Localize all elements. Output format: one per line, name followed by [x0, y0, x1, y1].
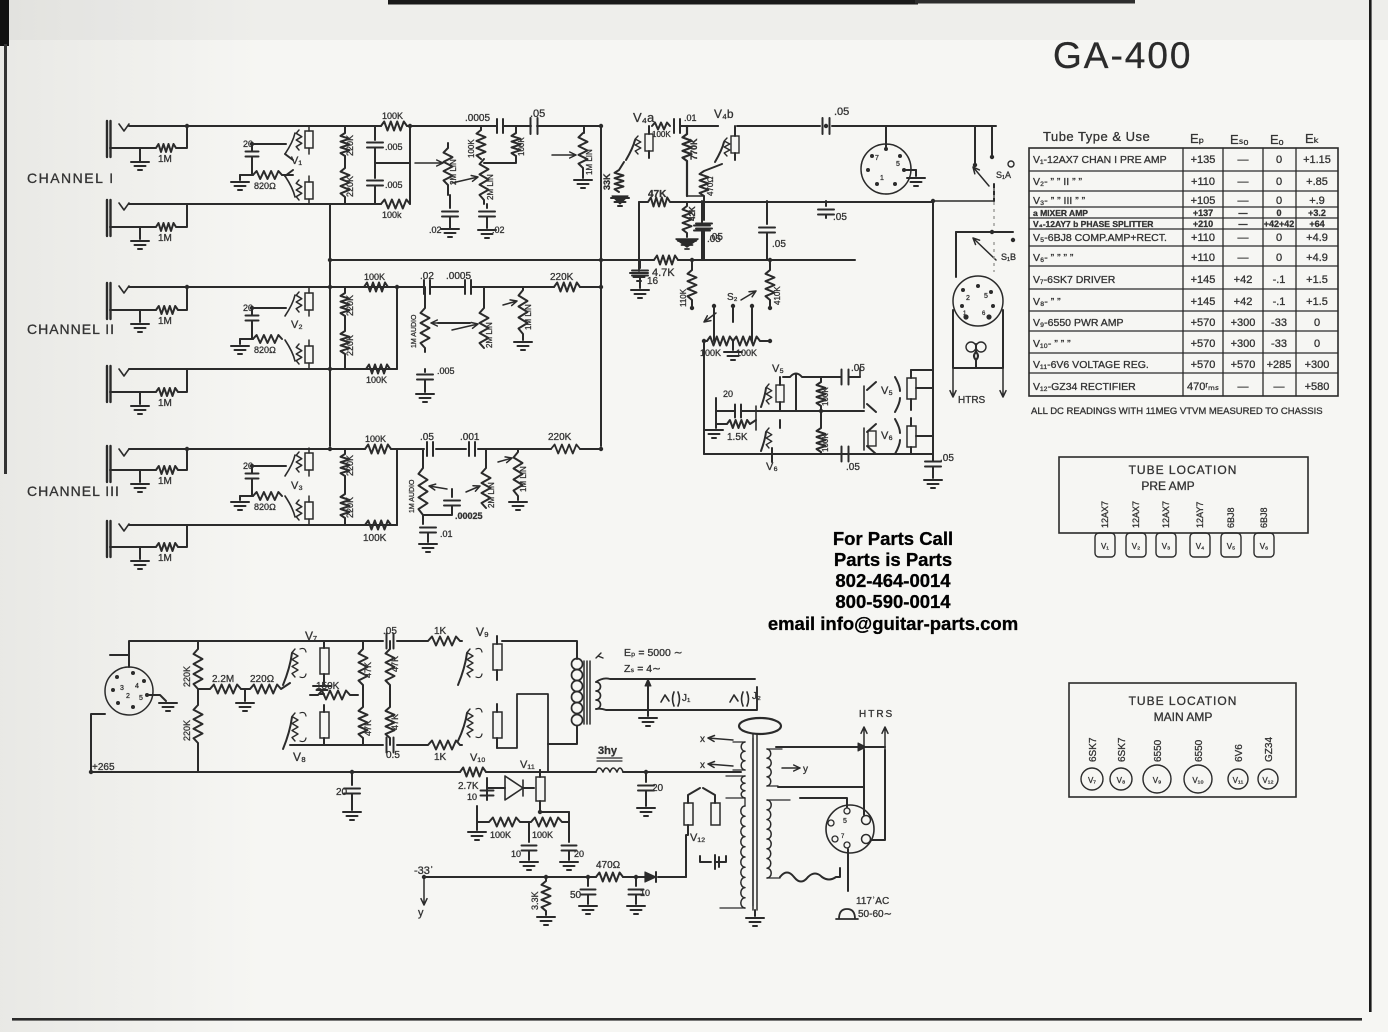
svg-text:V₁₂-GZ34 RECTIFIER: V₁₂-GZ34 RECTIFIER: [1033, 381, 1136, 393]
label 820 V1: [254, 181, 276, 191]
svg-text:y: y: [803, 764, 808, 775]
label V6 out: [881, 430, 893, 442]
svg-text:820Ω: 820Ω: [254, 345, 276, 355]
triode V1b: [285, 176, 313, 204]
capacitor 20 V1 cathode: [246, 144, 287, 175]
svg-text:6SK7: 6SK7: [1088, 737, 1099, 762]
svg-text:47K: 47K: [648, 189, 667, 200]
wire -33 bus: [424, 876, 686, 878]
pot 2M LIN ch1 a: [415, 143, 453, 195]
wire ch1 low bus: [129, 203, 381, 205]
svg-text:V₈: V₈: [293, 750, 306, 764]
svg-text:0.5: 0.5: [386, 750, 400, 761]
svg-text:2M LIN: 2M LIN: [485, 322, 494, 348]
label .05 ch1: [530, 108, 545, 120]
label V11: [520, 759, 535, 771]
label 100K v6g: [821, 433, 830, 452]
jack J1 speaker: [661, 692, 680, 706]
wire htrs arrows: [950, 368, 1006, 397]
label .005 ch1 upper: [385, 142, 403, 152]
svg-text:.02: .02: [492, 225, 505, 235]
ground comp: [705, 424, 723, 438]
svg-text:220K: 220K: [345, 176, 355, 197]
label 1M j6: [158, 553, 172, 564]
svg-text:50: 50: [570, 890, 582, 901]
svg-text:+.9: +.9: [1309, 195, 1325, 207]
svg-text:1M: 1M: [158, 553, 172, 564]
svg-text:20: 20: [723, 389, 733, 399]
svg-text:PRE AMP: PRE AMP: [1141, 479, 1194, 493]
svg-text:+110: +110: [1191, 232, 1215, 244]
svg-text:.05: .05: [833, 212, 847, 223]
label CHANNEL III: [27, 483, 120, 499]
svg-text:.05: .05: [772, 239, 786, 250]
svg-text:800-590-0014: 800-590-0014: [835, 591, 951, 612]
label .05 y201a: [707, 234, 721, 245]
svg-text:Parts is Parts: Parts is Parts: [834, 549, 952, 570]
arrow y feed: [418, 877, 427, 919]
svg-text:0: 0: [1276, 232, 1282, 244]
label V4b: [714, 107, 734, 121]
svg-text:—: —: [1238, 232, 1249, 244]
label 47K a: [363, 662, 373, 678]
svg-text:-33: -33: [1271, 338, 1287, 350]
label 20 bias: [574, 849, 584, 859]
tube V9 pentode: [458, 648, 482, 685]
svg-text:V₅: V₅: [772, 363, 784, 375]
label .05 ch3: [420, 432, 434, 443]
svg-text:2.7K: 2.7K: [458, 781, 479, 792]
capacitor .05 drv top: [387, 634, 394, 649]
wire S2 drops: [714, 306, 752, 341]
resistor R 770K: [683, 126, 692, 196]
label 47K c: [363, 720, 373, 736]
ground 1M pot: [574, 180, 592, 188]
triode V1a: [285, 126, 313, 154]
svg-text:GA-400: GA-400: [1053, 35, 1193, 76]
tube V8 pentode: [283, 712, 306, 749]
tube V4a triode: [626, 126, 653, 160]
transformer T1 output: [497, 641, 603, 771]
sockets mainamp V7-V12: [1081, 765, 1278, 793]
label 20 V1: [243, 139, 253, 149]
ground socket 7pin: [907, 170, 925, 186]
svg-text:V₇-6SK7 DRIVER: V₇-6SK7 DRIVER: [1033, 274, 1116, 286]
label 10 bias: [511, 849, 521, 859]
svg-text:100K: 100K: [366, 375, 387, 385]
svg-text:42K: 42K: [688, 206, 697, 221]
svg-text:-33: -33: [1271, 317, 1287, 329]
wire ch1 top bus: [129, 125, 381, 127]
svg-text:+42+42: +42+42: [1264, 219, 1295, 229]
svg-text:+42: +42: [1234, 274, 1253, 286]
svg-text:6V6: 6V6: [1234, 744, 1245, 762]
resistor R 410K: [766, 260, 775, 306]
ground 1M LIN ch2: [514, 342, 532, 350]
capacitor .05 y201 a: [694, 201, 710, 260]
resistor R 100K ch2 top: [364, 283, 388, 292]
svg-text:V₈- ” ”: V₈- ” ”: [1033, 296, 1061, 308]
resistor R 1K top: [424, 637, 462, 646]
svg-text:V₄a: V₄a: [633, 110, 655, 125]
label 2M LIN ch1 b: [486, 174, 495, 200]
svg-text:email info@guitar-parts.com: email info@guitar-parts.com: [768, 613, 1018, 634]
svg-text:1: 1: [880, 175, 884, 182]
wire socket top bus: [110, 641, 290, 655]
svg-text:820Ω: 820Ω: [254, 181, 276, 191]
svg-text:470Ω: 470Ω: [706, 177, 715, 197]
svg-text:.05: .05: [834, 106, 849, 118]
resistor R 470 V4b cathode: [700, 164, 723, 202]
tube socket 8pin: [105, 655, 166, 715]
svg-text:V₄-12AY7 b PHASE SPLITTER: V₄-12AY7 b PHASE SPLITTER: [1033, 219, 1153, 229]
tube V4b triode: [715, 126, 739, 162]
label V5 comp: [772, 363, 784, 375]
resistor R 1K bot: [424, 741, 462, 750]
capacitor .02 ch2: [424, 280, 430, 294]
wire octal right: [776, 743, 885, 807]
svg-text:1M LIN: 1M LIN: [585, 149, 594, 175]
label 10 bias2: [640, 888, 650, 898]
svg-text:—: —: [1238, 381, 1249, 393]
svg-text:S₂: S₂: [727, 292, 738, 303]
svg-text:-.1: -.1: [1273, 274, 1286, 286]
svg-text:V₂- ” ” II ” ”: V₂- ” ” II ” ”: [1033, 176, 1082, 188]
box tube location preamp: [1059, 457, 1308, 533]
labels mainamp tube types: [1088, 737, 1275, 762]
ground j3: [131, 310, 149, 332]
svg-text:0: 0: [1276, 154, 1282, 166]
svg-text:20: 20: [652, 783, 664, 794]
svg-text:1M: 1M: [158, 476, 172, 487]
svg-text:220K: 220K: [548, 432, 572, 443]
wire HV to socket: [780, 868, 840, 882]
resistor R 100K ch3 bottom: [365, 521, 397, 530]
label V10: [470, 752, 486, 764]
tube V5 output: [860, 368, 900, 412]
svg-text:V₁₁-6V6 VOLTAGE REG.: V₁₁-6V6 VOLTAGE REG.: [1033, 359, 1149, 371]
pot 1M ch1 level: [552, 126, 588, 178]
svg-text:V₅: V₅: [881, 385, 893, 397]
label .02 ch1 b: [492, 225, 505, 235]
svg-text:1K: 1K: [434, 626, 447, 637]
label V3: [291, 480, 303, 492]
wire v11 plate up: [540, 770, 569, 812]
svg-text:CHANNEL II: CHANNEL II: [27, 321, 115, 337]
switch S1B: [956, 230, 1015, 277]
label .05 v5c: [851, 363, 865, 374]
svg-text:100K: 100K: [490, 830, 511, 840]
wire bus y260: [329, 259, 855, 261]
svg-text:+1.5: +1.5: [1306, 296, 1328, 308]
label 100K ch3 bottom: [363, 533, 387, 544]
resistor R 100K s2b: [733, 337, 770, 346]
ground V7 cathode: [313, 680, 331, 694]
svg-text:.01: .01: [684, 113, 697, 123]
resistor R 220 grid: [241, 683, 290, 694]
svg-text:For Parts Call: For Parts Call: [833, 528, 953, 549]
label -33V: [414, 865, 434, 877]
label 20 V2: [243, 303, 253, 313]
svg-text:1M LIN: 1M LIN: [519, 466, 528, 492]
ground 33K: [611, 196, 629, 206]
svg-text:a MIXER AMP: a MIXER AMP: [1033, 208, 1088, 218]
label 1M AUDIO ch3: [409, 479, 416, 513]
label 470 bias: [596, 860, 620, 871]
svg-text:10: 10: [511, 849, 521, 859]
svg-text:—: —: [1238, 195, 1249, 207]
pot 2M LIN ch1 b: [452, 159, 489, 204]
label 470 V4b: [706, 177, 715, 197]
capacitor .001 ch3: [469, 442, 475, 456]
svg-text:220K: 220K: [345, 455, 355, 476]
svg-text:16: 16: [647, 276, 659, 287]
capacitor .05 V4 out: [696, 202, 712, 260]
svg-text:V₁₀- ” ” ”: V₁₀- ” ” ”: [1033, 338, 1071, 350]
wire V12 heater: [715, 856, 726, 862]
capacitor htr bypass: [700, 855, 719, 869]
ground j5: [131, 470, 149, 492]
resistor R 110K: [688, 260, 697, 306]
svg-text:.01: .01: [440, 529, 453, 539]
label HTRS bottom: [859, 709, 894, 720]
label 1M j4: [158, 398, 172, 409]
svg-text:Zₛ = 4∼: Zₛ = 4∼: [624, 663, 661, 675]
pot 2M LIN ch3: [466, 449, 491, 508]
table rows tube data: [1033, 154, 1331, 393]
svg-text:770K: 770K: [689, 138, 699, 160]
ground j1: [131, 148, 149, 170]
label .02 ch2: [420, 271, 434, 282]
label preamp title: [1129, 463, 1238, 493]
title GA-400: [1053, 35, 1193, 76]
svg-text:V₅-6BJ8 COMP.AMP+RECT.: V₅-6BJ8 COMP.AMP+RECT.: [1033, 232, 1167, 244]
svg-text:0: 0: [1314, 317, 1320, 329]
svg-text:1M: 1M: [158, 154, 172, 165]
svg-text:2: 2: [126, 693, 130, 700]
svg-text:2M LIN: 2M LIN: [486, 174, 495, 200]
resistor R 220K ch1 upper: [341, 126, 350, 156]
svg-text:6550: 6550: [1194, 739, 1205, 762]
svg-text:CHANNEL III: CHANNEL III: [27, 483, 120, 499]
svg-text:1K: 1K: [434, 752, 447, 763]
resistor R 820 V3: [240, 492, 282, 500]
plate resistor V10: [493, 704, 502, 748]
resistor R 100K V4a: [652, 123, 670, 130]
cathode resistor V11: [536, 770, 545, 812]
tube V6 output: [864, 419, 900, 454]
label S1B: [1001, 252, 1016, 262]
label .01 V4: [684, 113, 697, 123]
resistor R 100K ch1 r: [484, 126, 521, 163]
svg-text:12AX7: 12AX7: [1100, 501, 1110, 528]
label .001 ch3: [460, 432, 480, 443]
wire speaker bottom: [596, 687, 757, 710]
wire top bus right: [680, 125, 996, 127]
label V5 out: [881, 385, 893, 397]
label 33K: [602, 173, 612, 190]
label 1M LIN ch3: [519, 466, 528, 492]
svg-text:+137: +137: [1193, 208, 1213, 218]
capacitor .005 ch2: [416, 369, 434, 402]
label 0.5 drv bot: [386, 750, 400, 761]
label 1K top: [434, 626, 447, 637]
label 1.5K comp: [727, 432, 748, 443]
resistor R 1M ch3-j5: [110, 449, 187, 474]
label 42K: [688, 206, 697, 221]
jack input 1: [107, 121, 129, 157]
label 1M j5: [158, 476, 172, 487]
svg-text:6: 6: [982, 311, 986, 317]
table footnote: [1031, 406, 1323, 417]
svg-text:TUBE LOCATION: TUBE LOCATION: [1129, 694, 1238, 708]
resistor R 1M ch2-j4: [110, 369, 187, 396]
svg-text:110K: 110K: [679, 288, 688, 307]
svg-text:V₄b: V₄b: [714, 107, 734, 121]
svg-text:V₁₀: V₁₀: [470, 752, 486, 764]
svg-text:100K: 100K: [365, 434, 386, 444]
arrow x tap 1: [700, 734, 733, 745]
svg-text:6550: 6550: [1153, 739, 1164, 762]
tube V11 reg: [497, 776, 534, 800]
wire S1B feed: [933, 200, 994, 202]
label 1M j3: [158, 316, 172, 327]
svg-text:V₉: V₉: [1153, 776, 1162, 785]
svg-text:+285: +285: [1267, 359, 1292, 371]
capacitor .02 ch1 a: [441, 195, 459, 237]
resistor R 220K pi lower: [194, 689, 203, 772]
svg-text:V₅: V₅: [1227, 542, 1236, 551]
label .00025 ch3: [455, 511, 483, 521]
svg-text:+110: +110: [1191, 176, 1215, 188]
svg-text:Eₚ: Eₚ: [1190, 131, 1204, 146]
svg-text:100K: 100K: [532, 830, 553, 840]
label V12: [690, 832, 705, 844]
svg-text:820Ω: 820Ω: [254, 502, 276, 512]
svg-text:MAIN AMP: MAIN AMP: [1154, 710, 1213, 724]
ground socket 8pin: [159, 703, 177, 711]
label +265: [92, 762, 115, 773]
label 1M LIN ch2: [524, 304, 533, 330]
svg-text:+4.9: +4.9: [1306, 252, 1328, 264]
svg-text:+300: +300: [1305, 359, 1330, 371]
svg-text:+300: +300: [1231, 338, 1256, 350]
svg-text:V₁₂: V₁₂: [690, 832, 705, 844]
resistor R 100K ch3 top: [365, 445, 391, 454]
svg-text:.05: .05: [420, 432, 434, 443]
svg-text:1.5K: 1.5K: [727, 432, 748, 443]
svg-text:Tube Type & Use: Tube Type & Use: [1043, 129, 1150, 144]
svg-text:100K: 100K: [652, 130, 671, 139]
label CHANNEL II: [27, 321, 115, 337]
svg-text:Eₛₒ: Eₛₒ: [1230, 132, 1249, 147]
resistor R 42K: [683, 202, 692, 237]
svg-text:V₁₂: V₁₂: [1262, 776, 1273, 785]
svg-text:100K: 100K: [517, 137, 526, 156]
svg-text:2.2M: 2.2M: [212, 674, 234, 685]
arrow x tap 2: [700, 760, 733, 771]
label V4a: [633, 110, 655, 125]
label J1: [682, 693, 691, 704]
svg-text:.001: .001: [460, 432, 480, 443]
svg-text:.05: .05: [707, 234, 721, 245]
label 3hy: [598, 745, 618, 757]
capacitor 20 filt: [637, 772, 655, 816]
label 100K ch1 bottom: [382, 210, 402, 220]
resistor R 820 V1: [240, 171, 282, 179]
svg-text:.00025: .00025: [455, 511, 483, 521]
resistor R 47K d: [386, 695, 395, 745]
svg-text:220K: 220K: [550, 272, 574, 283]
svg-text:47K: 47K: [363, 662, 373, 678]
resistor R 2.2M: [198, 685, 241, 694]
resistor R 1M ch3-j6: [110, 525, 187, 551]
diode bias: [645, 872, 656, 882]
label 110K: [679, 288, 688, 307]
svg-text:.05: .05: [846, 462, 860, 473]
label 47K b: [390, 656, 400, 672]
switch S1A: [973, 126, 1014, 201]
label mainamp title: [1129, 694, 1238, 724]
label 100K ch2 top: [364, 272, 385, 282]
arrow y tap: [782, 764, 808, 775]
svg-text:220K: 220K: [345, 135, 355, 156]
wire driver top: [290, 640, 424, 642]
label HTRS top: [958, 395, 986, 406]
label .005 ch1 lower: [385, 180, 403, 190]
resistor R 100K ch1 top: [381, 122, 430, 131]
ground 1M LIN ch3: [509, 502, 527, 510]
plate resistor V6: [907, 418, 916, 454]
label 220K pi upper: [182, 666, 192, 687]
label 1M AUDIO ch2: [411, 314, 418, 348]
label 100K v5g: [821, 387, 830, 406]
label V1: [291, 155, 302, 167]
choke 3hy: [596, 758, 623, 772]
svg-text:150K: 150K: [316, 681, 340, 692]
svg-text:0: 0: [1276, 195, 1282, 207]
capacitor 50: [579, 877, 597, 914]
jack input 2: [107, 200, 129, 236]
tube socket 9pin: [953, 276, 1003, 326]
svg-text:—: —: [1239, 219, 1248, 229]
capacitor .0005 ch2: [465, 280, 471, 294]
capacitor .05 y201 c: [818, 201, 834, 218]
svg-text:410K: 410K: [773, 286, 782, 305]
svg-text:+4.9: +4.9: [1306, 232, 1328, 244]
label 100K ch1 top: [382, 111, 403, 121]
ground V2 cathode: [231, 339, 253, 354]
label .0005 ch1: [465, 113, 490, 124]
label .0005 ch2: [446, 271, 471, 282]
svg-text:33K: 33K: [602, 173, 612, 190]
capacitor .05 v5 couple: [842, 370, 849, 385]
table header Tube Type: [1043, 129, 1150, 144]
capacitor 20 pi: [343, 772, 361, 820]
ground S2 center: [724, 341, 742, 360]
svg-text:100K: 100K: [821, 387, 830, 406]
svg-text:6SK7: 6SK7: [1117, 737, 1128, 762]
svg-text:—: —: [1238, 252, 1249, 264]
rectifier V12 plates: [684, 788, 720, 877]
table grid tube data: [1029, 148, 1338, 396]
svg-text:V₁: V₁: [291, 155, 302, 167]
capacitor .05 v6 couple: [821, 447, 868, 462]
label .05 y201b: [772, 239, 786, 250]
tube V5 comp pentode: [761, 377, 784, 410]
label Ep Zs: [624, 647, 683, 675]
label 2M LIN ch3: [487, 482, 496, 508]
